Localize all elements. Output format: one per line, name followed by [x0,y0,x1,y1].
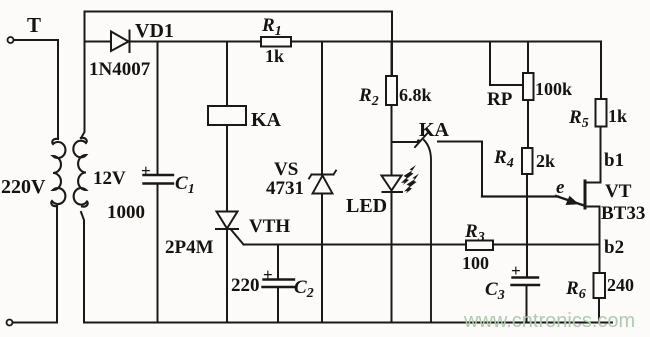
bottom rail [84,322,612,324]
wire KA right lead [438,142,482,197]
svg-text:4731: 4731 [266,178,304,199]
svg-text:T: T [27,13,41,37]
svg-text:1000: 1000 [107,202,145,223]
svg-text:BT33: BT33 [601,203,645,224]
transformer T1 secondary winding [73,138,87,207]
svg-text:220V: 220V [1,176,46,198]
transistor VT BT33 (UJT) [584,181,587,208]
svg-text:R5: R5 [568,107,589,131]
wire left edge (secondary top to top line) [81,12,85,139]
svg-text:C3: C3 [485,279,505,303]
svg-text:VTH: VTH [249,216,290,237]
wire gate/node bus y=244.5 [244,244,600,246]
svg-text:RP: RP [487,89,513,110]
diode VD1 [111,31,130,53]
svg-text:www.cntronics.com: www.cntronics.com [463,310,635,332]
transformer T1 primary winding [51,139,65,206]
wire C1 column [157,42,159,323]
wire b1 lead [585,182,601,184]
emitter arrowhead [566,196,580,205]
svg-text:220: 220 [231,275,260,296]
svg-text:6.8k: 6.8k [399,85,432,105]
svg-text:VD1: VD1 [135,20,174,42]
LED [382,176,403,193]
wire RP wiper [490,42,522,86]
svg-text:240: 240 [607,275,634,295]
wire R5 column [600,99,602,182]
svg-text:+: + [263,265,273,284]
relay coil KA [208,106,246,125]
capacitor C2 [263,280,296,288]
svg-text:R1: R1 [261,15,282,39]
resistor R2 [386,76,397,105]
svg-text:+: + [511,261,521,280]
wire relay to VTH [226,125,228,211]
svg-text:b1: b1 [604,150,624,171]
capacitor C3 [512,278,540,286]
wire main top rail [85,42,602,100]
svg-text:R6: R6 [565,278,586,302]
terminal bottom left [7,320,13,326]
svg-text:100: 100 [462,253,489,273]
wire secondary bottom lead [81,212,84,323]
terminal T (top left) [8,37,14,43]
wire b2 lead [585,207,600,245]
svg-text:12V: 12V [93,168,126,189]
wire RP column [527,42,529,149]
capacitor C1 [144,175,174,184]
wire R4 bottom / C3 column [526,174,529,323]
thyristor VTH [216,212,238,230]
svg-text:R4: R4 [493,147,514,171]
potentiometer RP [523,73,534,100]
zener diode VS column [321,42,323,323]
svg-text:1k: 1k [608,106,627,126]
wire relay column top [226,42,228,107]
svg-text:LED: LED [346,195,387,217]
svg-text:R3: R3 [464,221,485,245]
wire T to transformer primary top [14,40,58,139]
svg-text:C1: C1 [175,173,195,197]
svg-text:b2: b2 [604,237,624,258]
switch contact KA [392,132,430,148]
svg-text:1k: 1k [265,46,284,66]
wire KA moving contact down [424,140,431,323]
svg-text:VT: VT [605,181,632,202]
svg-text:+: + [141,161,151,180]
svg-text:100k: 100k [535,79,572,99]
resistor R4 [522,148,533,174]
svg-text:2k: 2k [536,151,555,171]
svg-text:C2: C2 [294,277,314,301]
wire R2 column [391,42,393,323]
wire top bypass line [85,12,393,77]
wire primary bottom lead [13,206,57,323]
wire VTH cathode to bottom rail [226,229,228,323]
resistor R5 [596,99,607,127]
wire b2 to R6 [598,245,601,323]
svg-text:R2: R2 [358,85,379,109]
svg-text:KA: KA [251,109,282,131]
svg-text:VS: VS [274,159,298,180]
LED light arrows [401,165,419,194]
resistor R6 [594,273,606,298]
svg-text:1N4007: 1N4007 [89,59,151,80]
svg-text:KA: KA [419,119,450,141]
svg-text:2P4M: 2P4M [165,237,214,258]
wire C2 column [277,245,279,323]
wire VTH gate diagonal [231,229,244,245]
resistor R3 [466,241,493,251]
resistor R1 [261,37,291,47]
svg-text:e: e [556,177,565,198]
wire emitter line [482,196,584,206]
zener diode VS 4731 [309,171,336,194]
